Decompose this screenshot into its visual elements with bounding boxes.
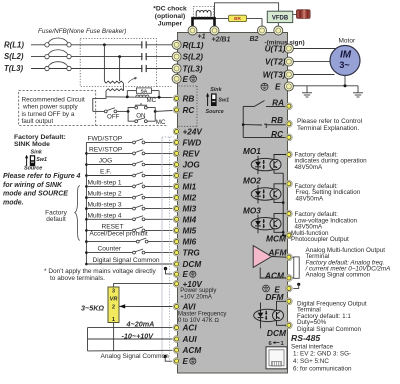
svg-text:MI1: MI1 bbox=[183, 182, 197, 191]
svg-text:OFF: OFF bbox=[107, 114, 120, 121]
svg-text:E: E bbox=[183, 270, 189, 279]
svg-text:ACI: ACI bbox=[182, 324, 198, 333]
svg-text:Accel/Decel prohibit: Accel/Decel prohibit bbox=[89, 231, 147, 238]
svg-text:Please refer to Figure 4: Please refer to Figure 4 bbox=[3, 173, 81, 180]
svg-text:Photocoupler Output: Photocoupler Output bbox=[291, 236, 349, 243]
svg-text:MI3: MI3 bbox=[183, 205, 197, 214]
svg-text:48V50mA: 48V50mA bbox=[296, 195, 324, 202]
svg-text:FWD/STOP: FWD/STOP bbox=[88, 135, 123, 142]
svg-text:Serial interface: Serial interface bbox=[291, 343, 333, 350]
svg-text:6: for communication: 6: for communication bbox=[293, 366, 352, 373]
svg-text:Analog Signal common: Analog Signal common bbox=[306, 272, 371, 279]
svg-text:Source: Source bbox=[24, 165, 42, 171]
svg-text:RB: RB bbox=[183, 94, 195, 103]
svg-text:Recommended Circuit: Recommended Circuit bbox=[22, 96, 85, 103]
svg-text:MO2: MO2 bbox=[243, 177, 261, 186]
svg-text:W(T3): W(T3) bbox=[263, 70, 286, 79]
svg-text:RESET: RESET bbox=[102, 223, 124, 230]
svg-text:REV: REV bbox=[183, 149, 201, 158]
svg-text:R(L1): R(L1) bbox=[183, 41, 204, 50]
svg-text:DFM: DFM bbox=[265, 292, 284, 302]
svg-text:3~: 3~ bbox=[339, 60, 349, 70]
svg-text:mode.: mode. bbox=[3, 199, 24, 206]
svg-text:to above terminals.: to above terminals. bbox=[50, 275, 105, 282]
svg-text:4: SG+ 5:NC: 4: SG+ 5:NC bbox=[293, 358, 329, 365]
svg-text:Sink: Sink bbox=[210, 87, 222, 93]
svg-text:B2: B2 bbox=[250, 36, 259, 43]
svg-text:Source: Source bbox=[206, 109, 224, 115]
svg-text:MI6: MI6 bbox=[183, 238, 197, 247]
svg-text:AVI: AVI bbox=[182, 303, 197, 312]
svg-text:T(L3): T(L3) bbox=[4, 64, 23, 73]
svg-text:fault output: fault output bbox=[22, 118, 54, 125]
svg-text:0 to 10V 47K Ω: 0 to 10V 47K Ω bbox=[178, 318, 219, 324]
svg-text:Digital Signal Common: Digital Signal Common bbox=[297, 326, 362, 333]
svg-text:MC: MC bbox=[147, 97, 157, 104]
svg-text:Digital Signal Common: Digital Signal Common bbox=[93, 257, 160, 264]
svg-text:Duty=50%: Duty=50% bbox=[297, 319, 327, 326]
svg-text:S(L2): S(L2) bbox=[4, 52, 24, 61]
svg-text:RS-485: RS-485 bbox=[291, 333, 320, 343]
svg-text:SA: SA bbox=[141, 88, 148, 94]
svg-text:Master Frequency: Master Frequency bbox=[178, 311, 226, 317]
svg-text:FWD: FWD bbox=[183, 138, 202, 147]
svg-text:AFM: AFM bbox=[267, 248, 287, 258]
svg-text:REV/STOP: REV/STOP bbox=[89, 146, 123, 153]
svg-text:+1: +1 bbox=[198, 34, 206, 41]
svg-text:SINK Mode: SINK Mode bbox=[14, 141, 50, 148]
svg-text:3: 3 bbox=[112, 289, 115, 295]
svg-text:MI4: MI4 bbox=[183, 215, 197, 224]
svg-text:Multi-step 4: Multi-step 4 bbox=[88, 212, 122, 219]
svg-text:JOG: JOG bbox=[183, 161, 201, 170]
svg-text:default: default bbox=[46, 216, 66, 223]
svg-text:R(L1): R(L1) bbox=[4, 40, 24, 49]
svg-text:VFDB: VFDB bbox=[272, 15, 289, 21]
svg-text:T(L3): T(L3) bbox=[183, 65, 203, 74]
svg-text:ON: ON bbox=[136, 113, 145, 120]
svg-text:for wiring of SINK: for wiring of SINK bbox=[3, 182, 63, 189]
svg-text:E.F.: E.F. bbox=[100, 169, 112, 176]
svg-text:Motor: Motor bbox=[339, 38, 356, 45]
svg-text:Analog Signal Common: Analog Signal Common bbox=[101, 353, 170, 360]
svg-text:Fuse/NFB(None Fuse Breaker): Fuse/NFB(None Fuse Breaker) bbox=[38, 28, 126, 35]
svg-text:ACM: ACM bbox=[264, 270, 285, 280]
svg-text:48V50mA: 48V50mA bbox=[295, 164, 323, 171]
svg-text:DCM: DCM bbox=[183, 260, 202, 269]
svg-text:1: 1 bbox=[112, 317, 115, 323]
svg-text:4~20mA: 4~20mA bbox=[126, 319, 155, 328]
svg-text:mode and SOURCE: mode and SOURCE bbox=[3, 191, 68, 198]
svg-text:BR: BR bbox=[234, 16, 241, 21]
svg-text:Please refer to Control: Please refer to Control bbox=[297, 118, 363, 125]
svg-text:Counter: Counter bbox=[98, 246, 122, 253]
svg-text:when power supply: when power supply bbox=[22, 104, 79, 111]
svg-text:is turned OFF by a: is turned OFF by a bbox=[22, 111, 75, 118]
svg-text:MI5: MI5 bbox=[183, 226, 197, 235]
svg-text:+2/B1: +2/B1 bbox=[212, 37, 231, 44]
svg-text:3~5KΩ: 3~5KΩ bbox=[81, 303, 104, 312]
svg-text:AUI: AUI bbox=[182, 335, 198, 344]
svg-text:Jumper: Jumper bbox=[158, 21, 183, 28]
svg-text:TRG: TRG bbox=[183, 249, 201, 258]
svg-text:E: E bbox=[183, 357, 189, 366]
svg-text:RB: RB bbox=[271, 116, 283, 125]
svg-text:RC: RC bbox=[183, 106, 196, 115]
svg-text:E: E bbox=[183, 75, 189, 84]
svg-text:Multi-step 1: Multi-step 1 bbox=[88, 179, 122, 186]
svg-text:ACM: ACM bbox=[182, 346, 202, 355]
svg-text:MO1: MO1 bbox=[243, 147, 261, 156]
svg-text:1: EV 2: GND 3: SG-: 1: EV 2: GND 3: SG- bbox=[293, 351, 351, 358]
svg-text:MO3: MO3 bbox=[243, 206, 261, 215]
svg-text:Multi-step 3: Multi-step 3 bbox=[88, 202, 122, 209]
svg-text:(optional): (optional) bbox=[155, 13, 185, 20]
svg-text:VR: VR bbox=[110, 296, 118, 302]
svg-text:MCM: MCM bbox=[266, 233, 287, 243]
svg-text:IM: IM bbox=[340, 49, 352, 60]
svg-text:+24V: +24V bbox=[183, 128, 204, 137]
svg-text:Sw1: Sw1 bbox=[36, 157, 47, 163]
svg-text:E: E bbox=[275, 83, 281, 92]
svg-text:RC: RC bbox=[271, 130, 284, 139]
svg-text:Sink: Sink bbox=[31, 150, 43, 156]
svg-text:Power supply: Power supply bbox=[180, 288, 216, 294]
svg-text:* Don't apply the mains voltag: * Don't apply the mains voltage directly bbox=[44, 268, 157, 275]
svg-text:+10V 20mA: +10V 20mA bbox=[180, 295, 212, 301]
svg-text:RA: RA bbox=[272, 98, 284, 107]
svg-text:S(L2): S(L2) bbox=[183, 53, 204, 62]
svg-text:MI2: MI2 bbox=[183, 194, 197, 203]
svg-text:Sw1: Sw1 bbox=[218, 98, 229, 104]
svg-text:Multi-step 2: Multi-step 2 bbox=[88, 191, 122, 198]
svg-text:U(T1): U(T1) bbox=[265, 44, 286, 53]
svg-text:V(T2): V(T2) bbox=[265, 57, 286, 66]
svg-text:DCM: DCM bbox=[267, 328, 287, 338]
svg-text:EF: EF bbox=[183, 172, 194, 181]
svg-text:JOG: JOG bbox=[99, 158, 113, 165]
svg-text:Factory Default:: Factory Default: bbox=[14, 134, 66, 141]
svg-text:*DC chock: *DC chock bbox=[153, 6, 187, 13]
svg-text:2: 2 bbox=[112, 304, 115, 310]
svg-text:Terminal Explanation.: Terminal Explanation. bbox=[297, 125, 359, 132]
